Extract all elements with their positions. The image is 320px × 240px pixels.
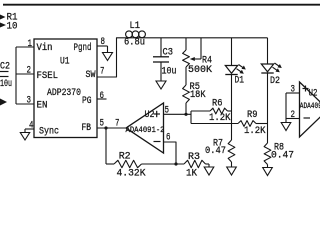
U1 pin label SW [86,69,97,81]
U1 refdes U1 [60,56,70,68]
wire input tie vertical [285,93,287,120]
LED D1 arrows [237,65,246,74]
op-amp U2 refdes [145,109,155,121]
ground at op-amp input [281,120,291,131]
pin 8 label [101,36,106,48]
resistor R5 body [183,85,190,103]
svg-text:6: 6 [100,90,105,102]
svg-text:7: 7 [115,118,120,130]
off-page arrow R1 [0,15,6,20]
R3 label [188,151,200,163]
pin 2 label [27,65,32,77]
potentiometer R4 wiper arrow [190,57,201,61]
resistor R7 body [228,140,235,162]
pin 7 output label [115,118,120,130]
R3 value 1K [186,168,198,180]
wire R4 wiper feed [200,38,202,59]
svg-text:18K: 18K [190,89,206,101]
svg-text:Vin: Vin [37,42,53,54]
op-amp U2 value ADA4091-2 [126,126,165,135]
svg-text:0.47: 0.47 [205,145,226,157]
ground at C3 [156,81,166,90]
R7 value 0.47 [205,145,226,157]
capacitor C3 plates [153,57,169,62]
wire D2 cathode down [267,73,269,143]
svg-text:ADA4091-2: ADA4091-2 [126,126,165,135]
svg-text:1.2K: 1.2K [209,112,231,124]
inductor L1 value 6.8u [124,37,145,49]
wire C3 bottom lead [160,62,162,81]
svg-text:FB: FB [82,122,92,134]
svg-text:R3: R3 [188,151,200,163]
off-page arrow 10 [0,23,6,28]
R2 label [119,151,131,163]
wire Pgnd stub [97,45,108,47]
U1 pin label Vin [37,42,53,54]
svg-text:D1: D1 [235,75,245,87]
ground at Pgnd [103,46,113,61]
op-amp right value [300,102,320,111]
wire pin1 Vin stub [16,46,34,48]
svg-text:1.2K: 1.2K [244,125,266,137]
capacitor C3 value 10u [162,66,177,78]
junction sense node [184,113,187,116]
wire pin 3 stub [286,92,300,94]
R8 value 0.47 [271,149,294,161]
svg-text:SW: SW [86,69,97,81]
wire PG stub [97,98,107,100]
svg-text:7: 7 [100,65,105,77]
wire R4-R5 lead [185,67,187,85]
wire inverting input [164,142,177,164]
capacitor C2 value 10u [0,78,12,90]
pin 5 noninv label [165,104,170,116]
svg-text:C2: C2 [0,61,10,73]
wire to R2 [106,163,114,165]
R4 label [202,55,212,67]
svg-text:U2: U2 [309,88,318,100]
U1 pin label Pgnd [74,42,92,54]
potentiometer R4 body [183,50,190,67]
wire R4 top lead [185,38,187,50]
svg-text:0.47: 0.47 [271,149,294,161]
wire branch vertical [190,111,192,124]
R6 label [212,98,223,110]
op-amp U2 right triangle [300,82,320,137]
svg-text:R6: R6 [212,98,223,110]
svg-text:FSEL: FSEL [37,70,59,82]
pin 4 label [29,120,34,132]
resistor R2 body [114,160,142,167]
pin 2 label [291,109,296,121]
wire pin3 EN stub [16,103,34,105]
wire noninverting input [164,113,192,115]
op-amp U2 minus sign [154,141,161,143]
junction R2-R3 node [174,162,177,165]
pin 6 label [100,90,105,102]
LED D2 arrows [273,63,282,72]
wire R9 to D2 node [256,123,268,125]
wire R6 to D1 node [228,110,232,112]
pin 1 label [28,38,33,50]
pin 3 label [27,95,32,107]
wire pin 2 stub [286,118,300,120]
svg-text:EN: EN [37,100,48,112]
svg-text:1K: 1K [186,168,198,180]
D2 label [270,75,280,87]
U1 pin label FB [82,122,92,134]
wire C3 top lead [160,38,162,57]
wire output rail [146,37,268,39]
wire to R9 [191,123,238,125]
U1 pin label PG [82,95,92,107]
svg-text:PG: PG [82,95,92,107]
ground at Sync [20,129,29,140]
svg-text:500K: 500K [188,64,213,76]
wire pin2 FSEL stub [16,73,34,75]
resistor R9 body [238,121,256,127]
R9 label [247,109,258,121]
svg-text:10u: 10u [0,78,12,90]
capacitor C2 label [0,61,10,73]
LED D2 cathode bar [261,72,273,74]
svg-text:1: 1 [28,38,33,50]
regulator U1 box [34,39,97,138]
svg-text:Pgnd: Pgnd [74,42,92,54]
resistor R3 body [184,160,206,167]
svg-text:6.8u: 6.8u [124,37,145,49]
R2 value 4.32K [117,168,147,180]
LED D1 triangle [225,66,237,74]
R9 value 1.2K [244,125,266,137]
capacitor C3 label [163,47,174,59]
pin 3 label [291,84,296,96]
R6 value 1.2K [209,112,231,124]
svg-text:U2: U2 [145,109,155,121]
op-amp U2 triangle [126,103,164,153]
LED D1 cathode bar [225,74,237,76]
R5 label [190,81,201,93]
ground at R3 [204,164,214,175]
svg-text:2: 2 [27,65,32,77]
frame top border [3,4,320,6]
junction FB node [104,126,107,129]
wire D1 anode [231,38,233,66]
wire R5 bottom lead [185,103,187,114]
wire FB node down [105,128,107,164]
inductor L1 [126,31,146,38]
pin 5 label [100,118,105,130]
pin 6 inv label [166,132,171,144]
svg-text:10: 10 [7,21,18,33]
svg-text:R2: R2 [119,151,131,163]
off-page arrow lower [0,99,7,106]
wire to R6 [191,110,210,112]
op-amp U2 plus sign [154,111,161,117]
wire R3 to ground [206,163,210,165]
inductor L1 label [130,20,141,32]
wire D2 anode [267,38,269,64]
svg-text:ADA409: ADA409 [300,102,320,111]
svg-text:L1: L1 [130,20,141,32]
wire FB to op-amp [97,127,126,129]
LED D2 triangle [261,64,273,72]
svg-text:10u: 10u [162,66,177,78]
R4 value 500K [188,64,213,76]
svg-text:U1: U1 [60,56,70,68]
U1 pin label FSEL [37,70,59,82]
wire input vertical [15,47,17,104]
U1 pin label Sync [39,126,59,138]
svg-text:D2: D2 [270,75,280,87]
ground at R7 [227,162,237,175]
wire SW to inductor [97,38,126,77]
wire D1 cathode down [231,75,233,141]
svg-text:ADP2370: ADP2370 [47,87,81,99]
svg-text:Sync: Sync [39,126,59,138]
op-amp right minus sign [304,117,311,119]
label 10 [7,21,18,33]
resistor R8 body [264,143,271,165]
svg-text:3: 3 [291,84,296,96]
wire R2 to R3 [142,163,185,165]
pin 7 label [100,65,105,77]
svg-text:R9: R9 [247,109,258,121]
svg-text:4: 4 [29,120,34,132]
capacitor C2 plates [0,72,9,77]
U1 value ADP2370 [47,87,81,99]
op-amp right refdes U2 [309,88,318,100]
R5 value [190,89,206,101]
svg-text:3: 3 [27,95,32,107]
svg-text:4.32K: 4.32K [117,168,147,180]
op-amp right plus sign [303,86,309,92]
label R1 [7,12,18,24]
D1 label [235,75,245,87]
U1 pin label EN [37,100,48,112]
R7 label [213,137,223,149]
svg-text:2: 2 [291,109,296,121]
resistor R6 body [210,108,228,114]
ground at R8 [263,165,273,176]
R8 label [274,142,284,154]
wire pin4 Sync stub [25,128,34,130]
